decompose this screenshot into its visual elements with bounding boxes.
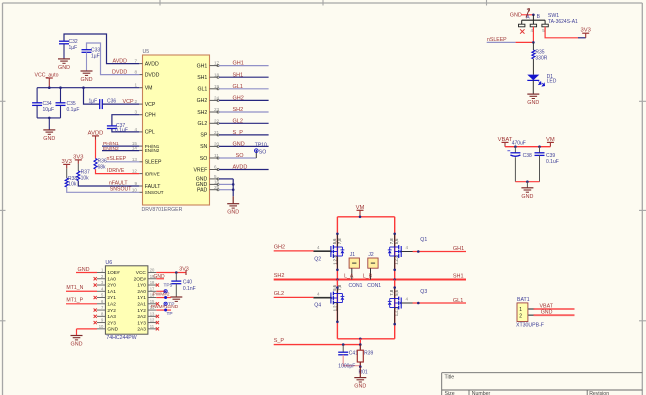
svg-text:GL2: GL2	[233, 118, 243, 124]
svg-text:19: 19	[214, 84, 220, 89]
svg-text:DVDD: DVDD	[112, 70, 127, 76]
svg-text:1000pF: 1000pF	[338, 364, 355, 370]
svg-text:1µF: 1µF	[89, 99, 98, 105]
svg-text:5: 5	[214, 174, 217, 179]
svg-text:SNSOUT: SNSOUT	[110, 187, 132, 193]
svg-text:GND: GND	[154, 274, 166, 280]
svg-text:AVDD: AVDD	[145, 61, 159, 67]
svg-text:18: 18	[150, 280, 155, 285]
svg-text:1A3: 1A3	[107, 314, 116, 320]
svg-text:XT30UPB-F: XT30UPB-F	[516, 322, 544, 328]
svg-text:LED: LED	[547, 79, 557, 85]
svg-text:GND: GND	[58, 65, 70, 71]
svg-text:VM: VM	[546, 137, 555, 143]
svg-text:0.1uF: 0.1uF	[546, 159, 559, 165]
svg-text:2A0: 2A0	[137, 289, 146, 295]
svg-text:VM: VM	[356, 205, 365, 211]
svg-text:DVDD: DVDD	[145, 72, 160, 78]
svg-text:Q2: Q2	[314, 256, 321, 262]
svg-text:0.1µF: 0.1µF	[67, 107, 80, 113]
svg-text:VBAT: VBAT	[540, 303, 554, 309]
svg-text:nSLEEP: nSLEEP	[487, 37, 507, 43]
svg-text:GND: GND	[78, 267, 90, 273]
svg-text:SH1: SH1	[453, 274, 464, 280]
svg-text:1,2,3: 1,2,3	[332, 301, 337, 311]
svg-text:74HC244PW: 74HC244PW	[106, 335, 136, 341]
svg-text:10k: 10k	[81, 175, 90, 181]
svg-text:7: 7	[134, 59, 137, 64]
svg-text:Q3: Q3	[420, 289, 427, 295]
svg-text:S_P: S_P	[233, 130, 244, 136]
svg-text:IDRIVE: IDRIVE	[107, 168, 125, 174]
svg-text:nFAULT: nFAULT	[109, 180, 128, 186]
svg-text:18: 18	[214, 72, 220, 77]
svg-text:VCC_auto: VCC_auto	[35, 73, 59, 79]
svg-text:GND: GND	[541, 310, 553, 316]
svg-text:1Y2: 1Y2	[137, 308, 146, 314]
svg-text:GH2: GH2	[233, 96, 244, 102]
svg-text:IDRIVE: IDRIVE	[145, 171, 160, 176]
svg-text:L_A: L_A	[344, 273, 354, 279]
svg-text:EN/IN2: EN/IN2	[145, 148, 160, 153]
svg-text:L_B: L_B	[363, 273, 373, 279]
svg-text:SW1: SW1	[548, 13, 559, 19]
svg-text:AVDD: AVDD	[88, 130, 104, 136]
svg-text:SP: SP	[200, 133, 207, 139]
svg-text:GL1: GL1	[197, 87, 207, 93]
svg-text:GND: GND	[107, 327, 118, 333]
svg-text:3V3: 3V3	[581, 28, 591, 34]
svg-text:24: 24	[214, 96, 220, 101]
svg-text:13: 13	[132, 157, 138, 162]
svg-text:2Y3: 2Y3	[107, 320, 116, 326]
svg-text:2OE#: 2OE#	[134, 276, 147, 282]
svg-text:1µF: 1µF	[69, 45, 78, 51]
svg-text:GND: GND	[527, 100, 539, 106]
svg-text:1: 1	[519, 307, 522, 313]
svg-text:EN/IN2: EN/IN2	[103, 146, 119, 152]
svg-text:SO: SO	[200, 156, 208, 162]
svg-text:22: 22	[214, 118, 220, 123]
svg-text:1OE#: 1OE#	[107, 270, 120, 276]
svg-text:SH2: SH2	[274, 273, 285, 279]
svg-text:9: 9	[134, 181, 137, 186]
svg-text:GND: GND	[71, 342, 83, 348]
svg-text:12: 12	[150, 318, 155, 323]
svg-text:2A3: 2A3	[137, 327, 146, 333]
svg-text:17: 17	[150, 286, 155, 291]
svg-text:10: 10	[99, 324, 104, 329]
svg-text:10: 10	[132, 187, 138, 192]
svg-text:GL2: GL2	[197, 121, 207, 127]
svg-text:5,6: 5,6	[394, 238, 399, 244]
svg-text:C36: C36	[107, 99, 116, 105]
svg-text:2Y2: 2Y2	[107, 308, 116, 314]
svg-text:0.1µF: 0.1µF	[115, 128, 128, 134]
svg-text:21: 21	[214, 130, 220, 135]
svg-text:7,8: 7,8	[337, 238, 342, 244]
svg-text:Q4: Q4	[314, 302, 321, 308]
svg-text:12: 12	[132, 169, 138, 174]
svg-text:Revision: Revision	[589, 391, 609, 395]
svg-text:4: 4	[406, 297, 409, 302]
svg-text:20: 20	[214, 142, 220, 147]
svg-text:Size: Size	[445, 391, 455, 395]
svg-text:11: 11	[150, 324, 155, 329]
svg-text:GND: GND	[354, 384, 366, 390]
svg-text:10µF: 10µF	[43, 107, 55, 113]
svg-text:Number: Number	[472, 391, 491, 395]
svg-text:J1: J1	[350, 252, 356, 258]
svg-text:VCC: VCC	[136, 270, 147, 276]
svg-text:Q1: Q1	[420, 237, 427, 243]
svg-text:4: 4	[406, 245, 409, 250]
svg-text:DRV8701ERGER: DRV8701ERGER	[142, 207, 183, 213]
svg-text:2: 2	[519, 314, 522, 320]
svg-text:23: 23	[214, 107, 220, 112]
svg-text:5,6: 5,6	[394, 289, 399, 295]
svg-text:68k: 68k	[98, 164, 107, 170]
svg-text:11: 11	[214, 153, 219, 158]
svg-text:C40: C40	[183, 279, 192, 285]
svg-text:2Y1: 2Y1	[107, 295, 116, 301]
svg-text:GL2: GL2	[274, 291, 284, 297]
svg-text:TP5: TP5	[164, 283, 173, 289]
svg-text:1,2,3: 1,2,3	[394, 255, 399, 265]
svg-text:13: 13	[150, 311, 155, 316]
svg-text:25: 25	[214, 185, 220, 190]
svg-text:GND: GND	[227, 210, 239, 216]
svg-text:S_P: S_P	[274, 338, 285, 344]
svg-text:GH2: GH2	[197, 98, 208, 104]
svg-text:GND: GND	[43, 136, 55, 142]
svg-text:SH1: SH1	[233, 72, 244, 78]
svg-text:3V3: 3V3	[73, 154, 83, 160]
svg-text:C39: C39	[546, 153, 555, 159]
svg-text:3V3: 3V3	[62, 159, 72, 165]
svg-text:1Y1: 1Y1	[137, 295, 146, 301]
svg-text:SNSOUT: SNSOUT	[145, 190, 164, 195]
svg-text:GH1: GH1	[453, 246, 464, 252]
svg-text:AVDD: AVDD	[113, 59, 128, 65]
svg-text:15: 15	[150, 299, 155, 304]
svg-text:U5: U5	[143, 49, 150, 55]
svg-text:0.1nF: 0.1nF	[183, 286, 196, 292]
svg-text:3: 3	[134, 110, 137, 115]
svg-text:TP10: TP10	[255, 143, 267, 149]
svg-text:4: 4	[134, 127, 137, 132]
svg-text:7,8: 7,8	[337, 284, 342, 290]
svg-text:1,2,3: 1,2,3	[332, 255, 337, 265]
svg-text:U6: U6	[105, 260, 112, 266]
svg-text:C38: C38	[523, 153, 532, 159]
svg-text:FAULT: FAULT	[145, 184, 162, 190]
svg-text:PAD: PAD	[197, 188, 208, 194]
svg-text:MT1_P: MT1_P	[66, 297, 83, 303]
svg-text:CPL: CPL	[145, 130, 155, 136]
svg-text:GL1: GL1	[453, 298, 463, 304]
svg-text:VCP: VCP	[123, 99, 134, 105]
svg-text:1A0: 1A0	[107, 276, 116, 282]
svg-text:470uF: 470uF	[512, 140, 526, 146]
svg-text:1A2: 1A2	[107, 302, 116, 308]
svg-text:TP: TP	[167, 311, 173, 317]
svg-text:SH2: SH2	[197, 110, 207, 116]
svg-text:BAT1: BAT1	[517, 297, 530, 303]
svg-text:VBAT: VBAT	[498, 137, 513, 143]
svg-text:nSLEEP: nSLEEP	[107, 156, 127, 162]
svg-text:CON1: CON1	[367, 283, 381, 289]
svg-text:GH1: GH1	[233, 61, 244, 67]
svg-text:1A1: 1A1	[107, 289, 116, 295]
svg-text:GH1: GH1	[197, 63, 208, 69]
svg-text:1: 1	[134, 83, 137, 88]
svg-text:SO: SO	[259, 149, 267, 155]
svg-text:8: 8	[134, 70, 137, 75]
svg-text:1,2,3: 1,2,3	[394, 306, 399, 316]
svg-text:VREF: VREF	[193, 167, 207, 173]
svg-text:R39: R39	[364, 351, 373, 357]
svg-text:VM: VM	[145, 86, 153, 92]
svg-text:SLEEP: SLEEP	[145, 160, 162, 166]
svg-text:GND: GND	[168, 304, 179, 310]
svg-text:VCP: VCP	[145, 102, 156, 108]
svg-text:GL1: GL1	[233, 84, 243, 90]
svg-text:SN: SN	[200, 144, 207, 150]
svg-text:AVDD: AVDD	[233, 165, 248, 171]
svg-text:1µF: 1µF	[91, 54, 100, 60]
svg-text:4: 4	[317, 245, 320, 250]
svg-text:17: 17	[214, 61, 220, 66]
svg-text:1Y3: 1Y3	[137, 320, 146, 326]
svg-text:20: 20	[150, 268, 155, 273]
svg-text:MT1_N: MT1_N	[66, 285, 83, 291]
svg-text:SO: SO	[236, 153, 245, 159]
svg-text:GND: GND	[510, 12, 522, 18]
svg-text:J2: J2	[368, 252, 374, 258]
svg-text:16: 16	[214, 180, 220, 185]
svg-text:SH1: SH1	[197, 75, 207, 81]
svg-text:1Y0: 1Y0	[137, 283, 146, 289]
svg-text:CPH: CPH	[145, 113, 156, 119]
svg-text:330R: 330R	[535, 55, 547, 61]
svg-text:TA-3624S-A1: TA-3624S-A1	[548, 19, 578, 25]
svg-text:SH2: SH2	[233, 107, 244, 113]
svg-text:6: 6	[214, 165, 217, 170]
svg-text:GND: GND	[81, 77, 93, 83]
svg-text:PWM#2: PWM#2	[153, 292, 170, 298]
svg-text:GND: GND	[521, 194, 533, 200]
svg-text:2A2: 2A2	[137, 314, 146, 320]
svg-text:CON1: CON1	[349, 283, 363, 289]
svg-text:4: 4	[317, 292, 320, 297]
svg-text:2A1: 2A1	[137, 302, 146, 308]
svg-text:Title: Title	[445, 375, 455, 381]
svg-text:GND: GND	[233, 142, 245, 148]
svg-text:3V3: 3V3	[179, 267, 189, 273]
svg-text:2: 2	[134, 99, 137, 104]
svg-text:10k: 10k	[68, 182, 77, 188]
svg-text:2Y0: 2Y0	[107, 283, 116, 289]
svg-text:GH2: GH2	[274, 244, 285, 250]
